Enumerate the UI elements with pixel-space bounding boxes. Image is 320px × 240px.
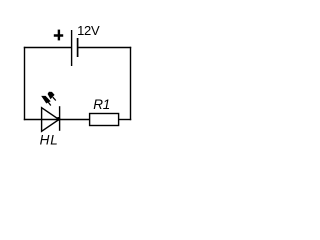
svg-text:12V: 12V (77, 23, 100, 38)
battery B1 positive plate (long) (71, 30, 73, 66)
wire resistor right lead (118, 119, 131, 121)
wire top-right: battery negative to top-right corner (78, 47, 131, 49)
wire right side vertical (130, 47, 132, 120)
wire left side vertical (24, 47, 26, 120)
battery B1 negative plate (short) (77, 38, 79, 57)
LED HL diode triangle (anode) (42, 108, 59, 132)
wire top-left: battery positive to top-left corner (24, 47, 71, 49)
wire bottom: left corner through LED to resistor (24, 119, 90, 121)
LED junction dot (57, 117, 61, 121)
LED light arrow 2 (lower) (41, 96, 51, 106)
LED light arrow 1 (upper) (48, 92, 56, 101)
svg-text:R1: R1 (93, 97, 110, 112)
svg-text:HL: HL (40, 132, 59, 147)
LED HL cathode bar (59, 106, 61, 131)
battery plus sign (54, 30, 63, 41)
resistor R1 body (90, 114, 119, 126)
